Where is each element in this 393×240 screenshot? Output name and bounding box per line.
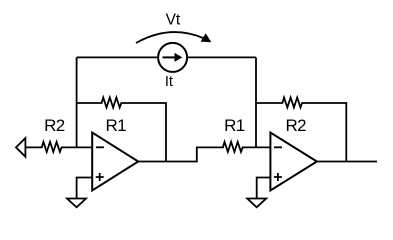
svg-text:Vt: Vt bbox=[166, 11, 181, 28]
svg-text:R2: R2 bbox=[286, 116, 307, 135]
svg-text:It: It bbox=[165, 74, 173, 90]
svg-text:R1: R1 bbox=[106, 116, 127, 135]
svg-text:R1: R1 bbox=[224, 116, 245, 135]
svg-text:R2: R2 bbox=[44, 116, 65, 135]
